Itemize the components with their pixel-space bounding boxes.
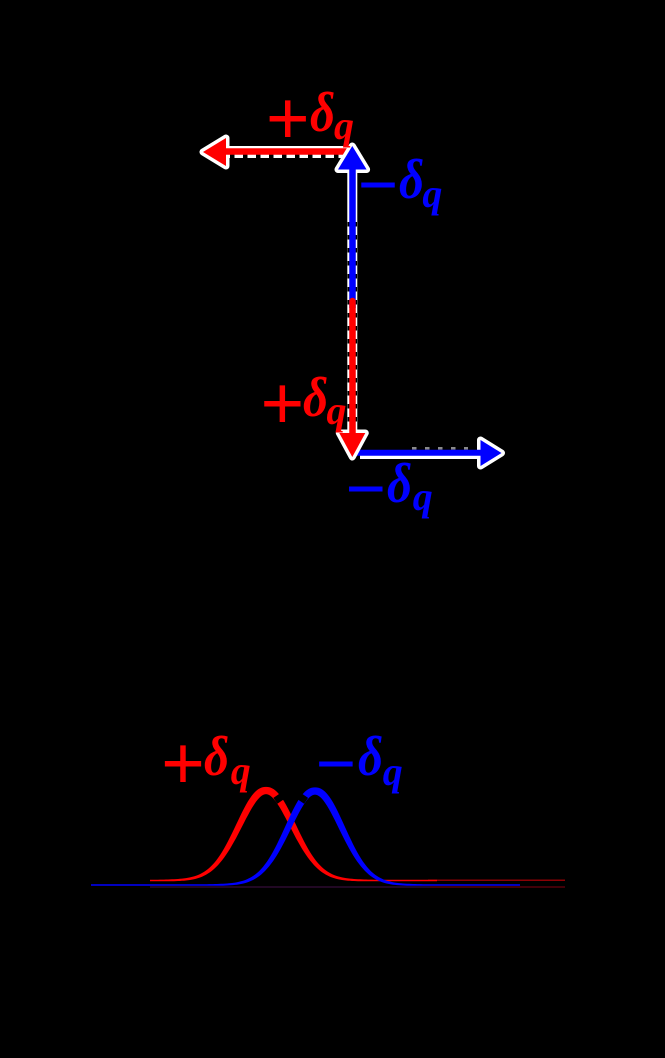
blue right arrow bbox=[356, 440, 502, 466]
red gaussian curve bbox=[150, 787, 437, 881]
label -dq plot blue bbox=[315, 728, 356, 800]
vertical arrows white casing bbox=[338, 146, 367, 457]
label -dq lower blue bbox=[345, 453, 386, 525]
black gap on red gaussian bbox=[275, 795, 283, 801]
label +dq plot red bbox=[161, 725, 205, 803]
label -dq top blue bbox=[357, 149, 398, 221]
red down arrow bbox=[339, 301, 365, 457]
blue up arrow bbox=[338, 146, 367, 308]
thin dark baseline under gaussians bbox=[150, 886, 430, 888]
dashed black line over vertical arrows bbox=[348, 222, 358, 430]
blue gaussian curve bbox=[91, 787, 520, 885]
red gaussian right tail bbox=[428, 879, 565, 881]
label +dq middle red bbox=[260, 365, 304, 443]
dashed gray line over blue right arrow bbox=[412, 447, 468, 450]
black gap on blue gaussian bbox=[298, 795, 306, 801]
dashed black line over red left arrow bbox=[230, 155, 348, 159]
red left arrow white casing bbox=[203, 138, 352, 166]
label +dq top red bbox=[266, 80, 310, 158]
red left arrow bbox=[203, 138, 352, 166]
blue right arrow white casing bbox=[360, 440, 502, 466]
